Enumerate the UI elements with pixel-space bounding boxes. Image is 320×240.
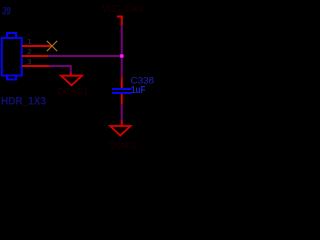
svg-text:DGND1: DGND1	[110, 141, 137, 151]
svg-text:2: 2	[27, 47, 31, 56]
svg-text:1: 1	[28, 37, 32, 46]
svg-text:3: 3	[27, 57, 31, 66]
svg-text:J9: J9	[2, 6, 11, 18]
svg-text:DGND1: DGND1	[58, 87, 88, 97]
svg-text:HDR_1X3: HDR_1X3	[1, 96, 46, 108]
svg-text:1uF: 1uF	[131, 85, 145, 96]
svg-text:VCC_CAN: VCC_CAN	[102, 4, 143, 15]
